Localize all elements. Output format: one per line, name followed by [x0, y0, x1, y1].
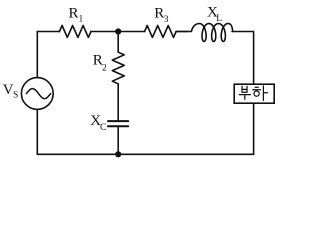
svg-text:1: 1 [79, 15, 84, 25]
svg-text:2: 2 [102, 64, 107, 74]
resistor R1 [59, 26, 91, 38]
wire bottom horizontal [37, 153, 253, 155]
inductor XL [176, 24, 233, 42]
load label hangul BU: bieup [242, 86, 247, 92]
capacitor XC bottom plate [108, 125, 128, 127]
load label hangul HA: hieut circle [254, 91, 259, 96]
junction dot top node [115, 28, 121, 34]
wire R2 to capacitor [117, 84, 119, 120]
svg-text:C: C [100, 123, 106, 133]
wire node A down to R2 [117, 32, 119, 53]
svg-text:R: R [154, 6, 164, 22]
load box [234, 84, 274, 103]
capacitor XC top plate [108, 120, 128, 122]
resistor R3 [145, 26, 177, 38]
wire left vertical lower segment [36, 109, 38, 154]
wire top: source corner to R1 [37, 31, 59, 33]
svg-text:S: S [13, 91, 18, 101]
resistor R2 [112, 52, 124, 84]
load label hangul BU: u vowel [239, 95, 250, 100]
svg-text:3: 3 [164, 15, 169, 25]
wire capacitor to bottom node [117, 127, 119, 154]
svg-text:R: R [69, 6, 79, 22]
wire load bottom to bottom rail [253, 103, 255, 154]
junction dot bottom node [115, 151, 121, 157]
source sine wave [26, 89, 50, 99]
wire left vertical upper segment [36, 32, 38, 78]
wire R3 to inductor [176, 31, 188, 33]
svg-text:L: L [216, 14, 222, 24]
load label hangul HA: a vowel [263, 86, 267, 101]
load label hangul HA: hieut strokes [253, 87, 261, 89]
wire inductor to top-right corner down to load [232, 32, 254, 85]
wire R1 to R3 through node A [91, 31, 145, 33]
source VS circle [21, 78, 53, 110]
